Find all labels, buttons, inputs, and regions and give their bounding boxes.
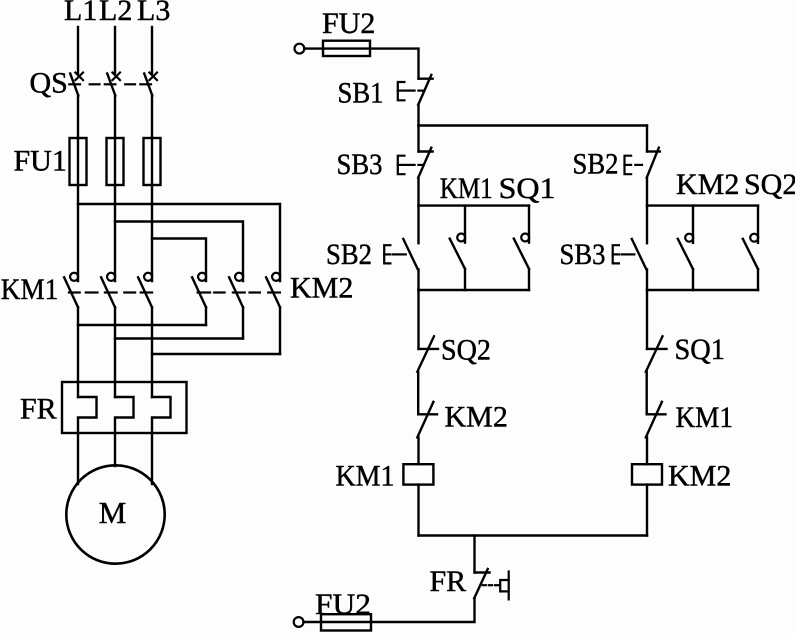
wire KM1 NC to coil KM2 (646, 437, 648, 464)
fuse FU1 element 3 (144, 138, 161, 185)
wire merge phase2 (115, 337, 243, 339)
svg-text:SQ2: SQ2 (441, 334, 491, 367)
svg-text:M: M (99, 495, 127, 530)
coil KM1 (403, 464, 433, 484)
contact KM1 aux NO (450, 206, 466, 290)
wire crossover phase2 to KM2 pole2 (115, 222, 243, 282)
wire crossover phase1 to KM2 pole3 (78, 204, 280, 281)
contact KM2 aux NO (678, 206, 693, 290)
button SB2 NO rungA (384, 206, 418, 290)
wire FR to motor u (77, 433, 79, 484)
svg-text:KM2: KM2 (445, 401, 508, 434)
svg-text:KM2: KM2 (668, 460, 731, 493)
relay FR heater 3 (152, 397, 171, 433)
contact SQ1 NC (646, 336, 667, 372)
svg-text:SB2: SB2 (573, 148, 619, 181)
wire KM2 NC to coil KM1 (417, 437, 419, 464)
wire coil KM1 to bottom bus (417, 485, 419, 536)
wire SB1 to branch (417, 105, 419, 126)
wire L3 drop (151, 27, 153, 73)
wire crossover phase3 to KM2 pole1 (152, 239, 206, 282)
wire L2 drop (114, 27, 116, 73)
svg-text:L1: L1 (64, 0, 97, 27)
contactor KM2 main contact 1 (192, 273, 206, 308)
button SB1 NC (398, 75, 433, 105)
wire KM2 pole2 bottom (242, 307, 244, 338)
wire parallel A bottom (419, 289, 530, 291)
wire QS to FU1 pole3 (151, 96, 153, 139)
wire coil KM2 to bottom bus (646, 485, 648, 536)
wire QS to FU1 pole2 (114, 96, 116, 139)
svg-text:QS: QS (30, 67, 68, 100)
wire FU1 to KM contacts phase1 (77, 185, 79, 281)
fuse FU2 bottom (321, 614, 371, 630)
wire parallel A top (419, 204, 530, 206)
svg-text:SB2: SB2 (326, 238, 372, 271)
wire KM1 pole3 to FR (151, 307, 153, 397)
svg-text:L3: L3 (137, 0, 170, 27)
svg-text:FR: FR (20, 393, 57, 426)
wire FR to motor v (114, 433, 116, 466)
switch QS pole 2 (107, 73, 120, 96)
wire parallel B top (647, 204, 758, 206)
contactor KM1 main contact 3 (138, 273, 152, 308)
contact KM1 NC (646, 402, 666, 438)
svg-text:KM1: KM1 (676, 401, 734, 434)
wire rungA to SQ2 (417, 290, 419, 349)
contactor KM1 main contact 1 (64, 273, 78, 308)
svg-text:SB3: SB3 (337, 148, 383, 181)
wire KM2 pole3 bottom (279, 307, 281, 354)
wire QS to FU1 pole1 (77, 96, 79, 139)
svg-text:SB3: SB3 (560, 238, 606, 271)
terminal bottom (294, 617, 304, 627)
button SB3 NO rungB (613, 206, 647, 290)
fuse FU1 element 2 (107, 138, 124, 185)
svg-text:KM1: KM1 (1, 273, 59, 306)
svg-text:FU2: FU2 (315, 588, 371, 621)
wire FU1 to KM contacts phase3 (151, 185, 153, 281)
contact KM2 NC (417, 402, 437, 438)
wire KM1 pole1 to FR (77, 307, 79, 397)
wire SB3 to parallel box A (417, 178, 419, 206)
terminal top (295, 44, 305, 54)
switch QS pole 1 (70, 73, 83, 96)
wire SB2 to parallel box B (646, 178, 648, 206)
wire FR to motor w (151, 433, 153, 484)
svg-text:SQ1: SQ1 (499, 172, 556, 205)
wire parallel B bottom (647, 289, 758, 291)
svg-text:SB1: SB1 (338, 77, 384, 110)
motor M (66, 465, 164, 563)
wire branch bus (419, 124, 648, 126)
wire FR contact to FU2 (304, 598, 475, 622)
svg-text:KM2: KM2 (676, 168, 739, 201)
relay FR contact NC (474, 569, 509, 599)
wire SQ2 to KM2 NC (417, 372, 419, 415)
svg-text:FU1: FU1 (14, 145, 67, 178)
KM1 linkage dashed (69, 291, 152, 293)
wire bus to FR contact (473, 536, 475, 573)
KM2 linkage dashed (198, 291, 280, 293)
wire merge phase1 (78, 324, 206, 326)
wire KM1 pole2 to FR (114, 307, 116, 397)
relay FR box (62, 382, 187, 433)
contactor KM2 main contact 2 (229, 273, 243, 308)
wire KM2 pole1 bottom (205, 307, 207, 325)
contact SQ2 NO (743, 206, 758, 290)
switch QS pole 3 (144, 73, 157, 96)
button SB3 NC rungA (398, 126, 433, 178)
fuse FU2 top (323, 41, 370, 56)
wire bottom bus (419, 534, 648, 536)
svg-text:KM1: KM1 (336, 460, 395, 493)
wire top feed (304, 49, 418, 79)
relay FR heater 1 (78, 397, 97, 433)
fuse FU1 element 1 (70, 138, 87, 185)
contactor KM2 main contact 3 (266, 273, 280, 308)
coil KM2 (632, 464, 662, 484)
svg-text:KM2: KM2 (290, 272, 353, 305)
svg-text:SQ1: SQ1 (675, 333, 726, 366)
relay FR heater 2 (115, 397, 134, 433)
wire merge phase3 (152, 353, 280, 355)
svg-text:KM1: KM1 (440, 172, 493, 205)
contact SQ1 NO (514, 206, 529, 290)
svg-text:FU2: FU2 (322, 7, 375, 40)
svg-text:SQ2: SQ2 (744, 168, 795, 201)
contactor KM1 main contact 2 (101, 273, 115, 308)
contact SQ2 NC (417, 336, 438, 372)
svg-text:L2: L2 (99, 0, 132, 27)
QS linkage dashed (69, 83, 151, 85)
wire L1 drop (77, 27, 79, 73)
button SB2 NC rungB (625, 126, 660, 178)
wire rungB to SQ1 (646, 290, 648, 349)
svg-text:FR: FR (430, 565, 467, 598)
wire FU1 to KM contacts phase2 (114, 185, 116, 281)
wire SQ1 to KM1 NC (646, 372, 648, 415)
